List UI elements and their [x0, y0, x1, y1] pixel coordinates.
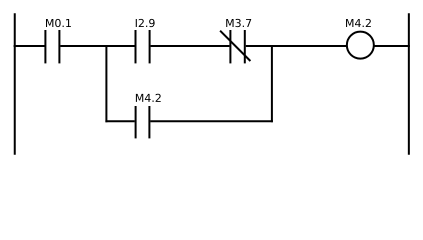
contact M3.7 (normally closed) [220, 30, 250, 63]
coil M4.2 [347, 32, 374, 59]
right power rail [408, 13, 410, 155]
contact M4.2 (branch, seal-in) [136, 106, 150, 138]
left power rail [14, 13, 16, 155]
label M3.7 [226, 19, 251, 27]
wire branch bottom right [150, 120, 273, 122]
label M4.2 (branch) [136, 94, 161, 102]
wire branch right vertical [271, 45, 273, 122]
label I2.9 [136, 19, 155, 27]
wire M0.1 to contact I2.9 [60, 45, 134, 47]
wire M3.7 to coil M4.2 [246, 45, 346, 47]
wire left rail to contact M0.1 [14, 45, 45, 47]
wire coil to right rail [373, 45, 410, 47]
label M4.2 (coil) [346, 19, 371, 27]
wire branch bottom left [105, 120, 134, 122]
contact I2.9 [136, 30, 150, 63]
wire branch left vertical [105, 45, 107, 122]
contact M0.1 [45, 30, 59, 63]
label M0.1 [46, 19, 71, 27]
wire I2.9 to contact M3.7 [151, 45, 230, 47]
